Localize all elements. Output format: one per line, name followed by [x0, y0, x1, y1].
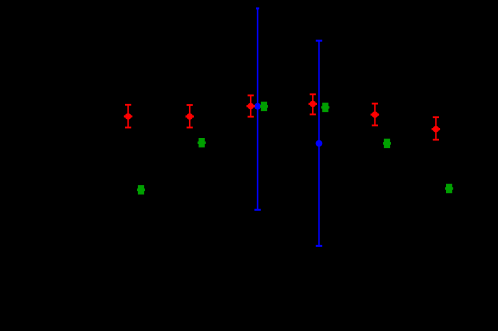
red series point R5: [371, 103, 379, 127]
green series point G5: [383, 139, 391, 148]
red series point R4: [309, 93, 317, 115]
green series point G4: [321, 103, 329, 112]
red series point R3: [247, 95, 255, 118]
green series point G6: [445, 184, 453, 193]
blue series point B2 marker: [316, 140, 323, 147]
blue series point B1 error bar: [254, 7, 260, 210]
blue series point B2 error bar: [316, 40, 322, 247]
green series point G2: [198, 138, 206, 147]
red series point R6: [432, 116, 440, 140]
blue series point B1 marker: [254, 103, 261, 110]
red series point R2: [186, 104, 194, 128]
green series point G3: [260, 102, 268, 111]
red series point R1: [124, 104, 132, 128]
green series point G1: [137, 185, 145, 194]
